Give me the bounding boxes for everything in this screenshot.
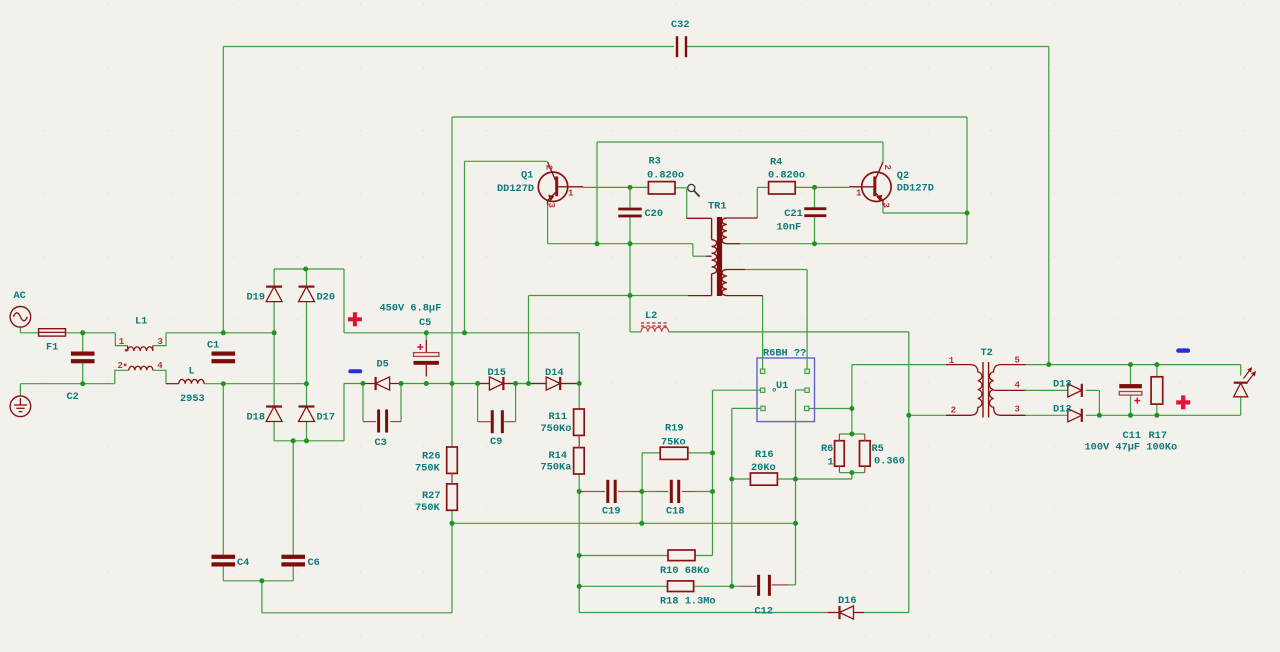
svg-text:F1: F1 — [46, 342, 58, 354]
svg-text:C1: C1 — [207, 340, 219, 352]
svg-text:2: 2 — [118, 361, 123, 371]
svg-text:R26: R26 — [422, 451, 441, 463]
svg-text:R27: R27 — [422, 490, 441, 502]
svg-text:R4: R4 — [770, 157, 782, 169]
svg-text:1: 1 — [119, 337, 125, 347]
svg-text:750Ko: 750Ko — [541, 423, 572, 435]
svg-text:D17: D17 — [317, 412, 336, 424]
svg-text:Q1: Q1 — [521, 170, 533, 182]
svg-text:o: o — [772, 387, 776, 394]
svg-text:750Ka: 750Ka — [541, 462, 572, 474]
svg-text:T2: T2 — [981, 347, 993, 359]
svg-text:Q2: Q2 — [897, 170, 909, 182]
svg-text:TR1: TR1 — [708, 201, 727, 213]
svg-text:2: 2 — [951, 405, 956, 415]
svg-text:R6BH ??: R6BH ?? — [763, 348, 806, 360]
svg-text:C4: C4 — [237, 557, 249, 569]
svg-text:75Ko: 75Ko — [661, 437, 686, 449]
svg-text:750K: 750K — [415, 502, 441, 514]
svg-text:3: 3 — [546, 203, 556, 208]
svg-text:C32: C32 — [671, 19, 690, 31]
svg-text:1: 1 — [568, 189, 574, 199]
svg-text:D18: D18 — [247, 412, 266, 424]
svg-text:20Ko: 20Ko — [751, 462, 776, 474]
svg-text:R6: R6 — [821, 443, 833, 455]
svg-text:D5: D5 — [377, 359, 389, 371]
svg-text:1: 1 — [828, 457, 834, 469]
svg-text:R10 68Ko: R10 68Ko — [660, 565, 709, 577]
svg-text:L1: L1 — [135, 316, 147, 328]
svg-text:4: 4 — [157, 361, 163, 371]
svg-text:R11: R11 — [549, 411, 568, 423]
svg-text:4: 4 — [1015, 381, 1021, 391]
svg-text:C5: C5 — [419, 317, 431, 329]
svg-text:DD127D: DD127D — [897, 183, 934, 195]
svg-text:C19: C19 — [602, 506, 621, 518]
svg-text:R17: R17 — [1149, 430, 1168, 442]
svg-text:2: 2 — [543, 165, 553, 170]
svg-text:R16: R16 — [755, 449, 774, 461]
svg-text:D15: D15 — [488, 367, 507, 379]
svg-text:C2: C2 — [67, 391, 79, 403]
svg-text:1: 1 — [949, 356, 955, 366]
svg-text:L2: L2 — [645, 310, 657, 322]
svg-text:3: 3 — [881, 203, 891, 208]
svg-text:C12: C12 — [755, 606, 774, 618]
svg-text:450V 6.8µF: 450V 6.8µF — [380, 303, 442, 315]
svg-text:0.820o: 0.820o — [768, 170, 805, 182]
svg-text:AC: AC — [14, 290, 26, 302]
svg-text:3: 3 — [158, 337, 163, 347]
svg-text:C21: C21 — [784, 208, 803, 220]
svg-text:0.360: 0.360 — [874, 456, 905, 468]
svg-text:1: 1 — [856, 189, 862, 199]
svg-text:C11: C11 — [1123, 430, 1142, 442]
svg-text:R14: R14 — [549, 450, 568, 462]
svg-text:D19: D19 — [247, 292, 266, 304]
svg-text:C6: C6 — [308, 557, 320, 569]
svg-text:D20: D20 — [317, 292, 336, 304]
svg-text:R3: R3 — [649, 156, 661, 168]
svg-text:R19: R19 — [665, 423, 684, 435]
svg-text:C18: C18 — [666, 506, 685, 518]
svg-text:L: L — [189, 366, 195, 378]
svg-text:D16: D16 — [838, 595, 857, 607]
svg-text:C3: C3 — [375, 437, 387, 449]
svg-text:3: 3 — [1015, 405, 1020, 415]
svg-text:100V 47µF 100Ko: 100V 47µF 100Ko — [1085, 442, 1178, 454]
svg-text:2: 2 — [882, 165, 892, 170]
svg-text:2953: 2953 — [180, 393, 205, 405]
svg-text:C9: C9 — [490, 436, 502, 448]
svg-text:R5: R5 — [872, 443, 884, 455]
svg-text:C20: C20 — [645, 208, 664, 220]
svg-text:U1: U1 — [776, 380, 788, 392]
svg-text:D13: D13 — [1053, 379, 1072, 391]
svg-text:D12: D12 — [1053, 404, 1072, 416]
svg-text:5: 5 — [1015, 356, 1020, 366]
svg-text:0.820o: 0.820o — [647, 170, 684, 182]
svg-text:R18 1.3Mo: R18 1.3Mo — [660, 596, 716, 608]
svg-text:10nF: 10nF — [777, 222, 802, 234]
svg-text:750K: 750K — [415, 463, 441, 475]
svg-text:DD127D: DD127D — [497, 183, 534, 195]
svg-text:D14: D14 — [545, 367, 564, 379]
